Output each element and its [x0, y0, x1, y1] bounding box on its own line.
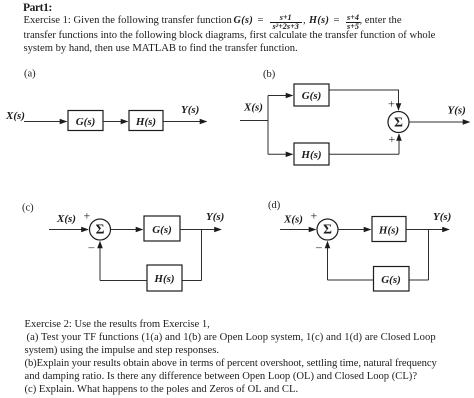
- block G(s) (c): [144, 216, 180, 241]
- block G(s) (a): [68, 111, 103, 131]
- wire feedback branch down (c): [201, 230, 203, 281]
- svg-text:X(s): X(s): [283, 214, 303, 226]
- svg-text:X(s): X(s): [243, 102, 263, 114]
- svg-text:X(s): X(s): [56, 213, 76, 225]
- svg-text:–: –: [88, 242, 95, 254]
- svg-text:(d): (d): [268, 200, 281, 211]
- svg-text:(c): (c): [22, 203, 34, 214]
- wire input to G1: [24, 121, 67, 123]
- wire feedback up into summer (d): [327, 242, 329, 281]
- Exercise 2 heading line: [25, 319, 210, 330]
- svg-text:+: +: [84, 209, 91, 223]
- wire input (c): [49, 229, 88, 231]
- Exercise 2 item (a) line 2: [25, 345, 220, 356]
- wire H2 up into summer: [398, 134, 400, 154]
- svg-text:H(s): H(s): [153, 273, 174, 285]
- svg-text:Y(s): Y(s): [433, 211, 451, 223]
- wire feedback H3 to summer: [100, 280, 147, 282]
- summing junction (c): [90, 219, 111, 240]
- svg-text:H(s): H(s): [300, 149, 321, 161]
- wire G1 to H1: [103, 121, 128, 123]
- svg-text:G(s): G(s): [152, 224, 172, 236]
- wire output (d): [406, 229, 449, 231]
- wire G2 down into summer: [398, 90, 400, 111]
- svg-text:+: +: [389, 132, 396, 146]
- wire feedback into G4: [409, 279, 429, 281]
- block G(s) (b): [294, 84, 329, 106]
- wire output (b): [409, 121, 470, 123]
- svg-text:Y(s): Y(s): [206, 211, 224, 223]
- wire summer to G3: [111, 229, 143, 231]
- svg-text:G(s): G(s): [76, 116, 96, 128]
- svg-text:(a): (a): [24, 69, 36, 80]
- svg-text:Σ: Σ: [394, 115, 403, 130]
- svg-text:Y(s): Y(s): [181, 104, 199, 116]
- wire input (d): [280, 229, 316, 231]
- wire output (c): [180, 229, 221, 231]
- svg-text:H(s): H(s): [378, 225, 399, 237]
- svg-text:(b): (b): [263, 69, 276, 80]
- wire feedback up into summer (c): [99, 242, 101, 281]
- Exercise 2 item (b) line 1: [25, 358, 437, 369]
- wire G2 out horizontal: [329, 89, 399, 91]
- block G(s) (d): [374, 267, 410, 292]
- Exercise 2 item (b) line 2: [25, 371, 418, 382]
- paragraph line 3: [24, 43, 298, 54]
- wire branch vertical (b): [267, 96, 269, 155]
- svg-text:Σ: Σ: [323, 222, 332, 237]
- svg-text:Y(s): Y(s): [448, 105, 466, 117]
- wire feedback G4 to summer: [328, 279, 374, 281]
- summing junction (d): [317, 219, 338, 240]
- summing junction (b): [388, 112, 409, 133]
- block H(s) (d): [372, 217, 406, 242]
- wire branch to H2: [268, 153, 293, 155]
- wire feedback branch down (d): [428, 230, 430, 281]
- Exercise 2 item (a) line 1: [27, 332, 436, 343]
- svg-text:–: –: [315, 242, 322, 254]
- heading Part1:: [23, 2, 52, 14]
- wire feedback into H3: [182, 280, 202, 282]
- svg-text:Σ: Σ: [96, 222, 105, 237]
- block H(s) (c): [147, 265, 182, 291]
- block H(s) (b): [294, 143, 329, 165]
- svg-text:G(s): G(s): [381, 274, 401, 286]
- wire output (a): [163, 121, 207, 123]
- svg-text:+: +: [388, 97, 395, 111]
- wire branch to G2: [268, 95, 293, 97]
- svg-text:H(s): H(s): [135, 116, 156, 128]
- wire summer to H4: [338, 229, 371, 231]
- block H(s) (a): [129, 111, 163, 131]
- svg-text:X(s): X(s): [5, 110, 25, 122]
- svg-text:G(s): G(s): [302, 90, 322, 102]
- wire H2 out horizontal: [329, 153, 399, 155]
- Exercise 2 item (c) line: [25, 384, 299, 395]
- wire input (b): [240, 120, 268, 122]
- svg-text:+: +: [311, 209, 318, 223]
- paragraph line 1: [24, 15, 232, 26]
- paragraph line 2: [24, 30, 436, 41]
